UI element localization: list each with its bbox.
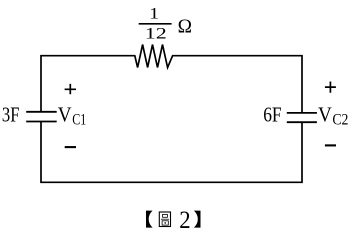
svg-text:1: 1: [149, 6, 159, 23]
svg-text:12: 12: [145, 26, 167, 43]
svg-text:6F: 6F: [263, 104, 281, 126]
svg-text:V: V: [58, 105, 72, 127]
svg-text:2: 2: [179, 206, 190, 234]
svg-text:C1: C1: [72, 112, 86, 129]
svg-text:V: V: [318, 105, 332, 127]
svg-text:Ω: Ω: [178, 15, 192, 37]
svg-text:3F: 3F: [2, 104, 20, 126]
svg-text:C2: C2: [332, 112, 348, 129]
